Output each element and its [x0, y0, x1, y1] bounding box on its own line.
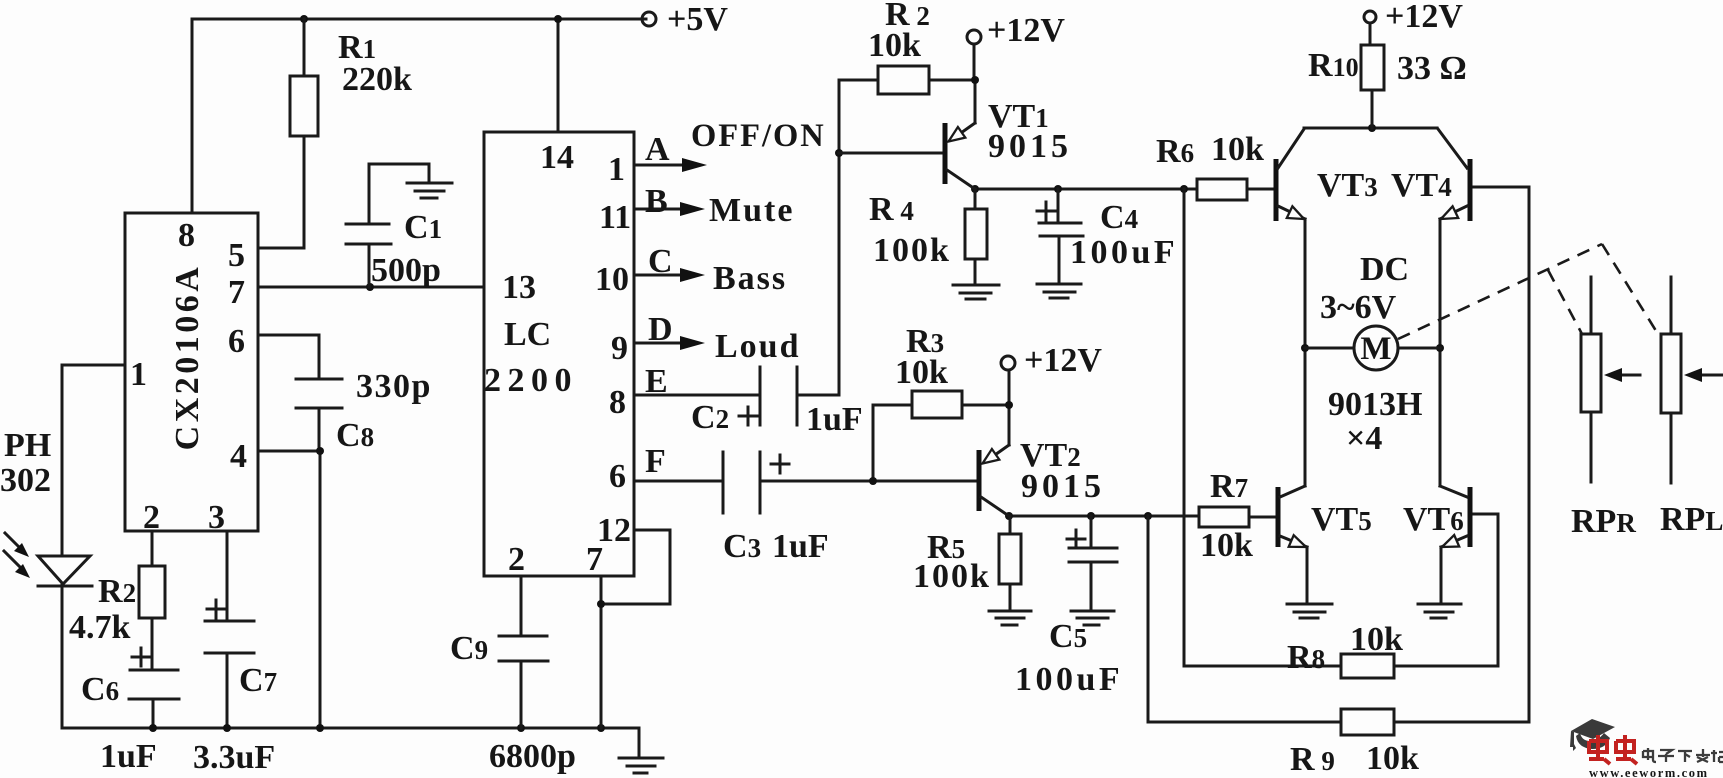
svg-text:1uF: 1uF — [806, 401, 863, 438]
svg-text:A: A — [645, 131, 670, 168]
svg-text:7: 7 — [228, 274, 245, 311]
svg-text:VT5: VT5 — [1311, 501, 1372, 538]
svg-text:F: F — [645, 443, 666, 480]
svg-text:3: 3 — [208, 499, 225, 536]
svg-text:330p: 330p — [356, 368, 432, 405]
svg-text:D: D — [648, 311, 673, 348]
svg-text:14: 14 — [540, 139, 574, 176]
svg-text:E: E — [645, 363, 668, 400]
svg-text:VT6: VT6 — [1403, 501, 1464, 538]
svg-text:+12V: +12V — [1385, 0, 1463, 35]
svg-text:8: 8 — [178, 217, 195, 254]
svg-text:+12V: +12V — [1024, 342, 1102, 379]
svg-text:10: 10 — [595, 261, 629, 298]
svg-text:10k: 10k — [895, 354, 948, 391]
svg-text:C2: C2 — [691, 399, 729, 436]
svg-text:×4: ×4 — [1346, 420, 1382, 457]
svg-text:Mute: Mute — [709, 192, 794, 229]
svg-text:C5: C5 — [1049, 618, 1087, 655]
svg-text:10k: 10k — [1200, 527, 1253, 564]
svg-text:C3: C3 — [723, 528, 761, 565]
svg-text:33 Ω: 33 Ω — [1397, 50, 1467, 87]
svg-text:C: C — [648, 243, 673, 280]
svg-text:2200: 2200 — [484, 362, 578, 399]
svg-text:100uF: 100uF — [1015, 661, 1123, 698]
svg-text:11: 11 — [599, 199, 631, 236]
svg-text:C1: C1 — [404, 209, 442, 246]
svg-text:R10: R10 — [1308, 47, 1359, 84]
svg-text:100uF: 100uF — [1070, 234, 1178, 271]
svg-text:12: 12 — [597, 512, 631, 549]
svg-text:C6: C6 — [81, 671, 119, 708]
svg-text:Bass: Bass — [713, 260, 787, 297]
svg-text:R 4: R 4 — [869, 191, 914, 228]
svg-text:C9: C9 — [450, 630, 488, 667]
svg-text:10k: 10k — [1366, 740, 1419, 777]
svg-text:www.eeworm.com: www.eeworm.com — [1589, 766, 1709, 778]
svg-text:C4: C4 — [1100, 199, 1138, 236]
svg-text:1: 1 — [130, 356, 147, 393]
svg-text:10k: 10k — [1211, 131, 1264, 168]
svg-text:Loud: Loud — [715, 328, 801, 365]
svg-text:+5V: +5V — [667, 1, 728, 38]
svg-text:9015: 9015 — [988, 128, 1072, 165]
svg-text:C8: C8 — [336, 417, 374, 454]
svg-text:OFF/ON: OFF/ON — [691, 118, 826, 154]
svg-text:VT4: VT4 — [1391, 167, 1452, 204]
svg-text:3~6V: 3~6V — [1320, 289, 1397, 326]
svg-text:1uF: 1uF — [772, 528, 829, 565]
svg-text:1: 1 — [608, 151, 625, 188]
svg-text:C7: C7 — [239, 662, 277, 699]
svg-text:9: 9 — [611, 330, 628, 367]
svg-text:13: 13 — [502, 269, 536, 306]
svg-text:8: 8 — [609, 384, 626, 421]
svg-text:10k: 10k — [1350, 621, 1403, 658]
svg-text:M: M — [1360, 331, 1391, 367]
svg-text:2: 2 — [143, 499, 160, 536]
svg-text:302: 302 — [0, 462, 51, 499]
svg-text:DC: DC — [1360, 251, 1409, 288]
svg-text:R 9: R 9 — [1290, 741, 1335, 778]
svg-text:220k: 220k — [342, 61, 412, 98]
svg-text:RPL: RPL — [1660, 501, 1723, 538]
svg-text:1uF: 1uF — [100, 738, 157, 775]
svg-text:2: 2 — [508, 541, 525, 578]
svg-text:R2: R2 — [98, 573, 136, 610]
svg-text:6: 6 — [228, 323, 245, 360]
svg-text:R7: R7 — [1210, 468, 1248, 505]
svg-text:9015: 9015 — [1021, 468, 1105, 505]
svg-text:6800p: 6800p — [489, 738, 576, 775]
svg-text:LC: LC — [504, 316, 551, 353]
svg-text:B: B — [645, 183, 668, 220]
svg-text:5: 5 — [228, 237, 245, 274]
svg-text:PH: PH — [4, 427, 51, 464]
svg-text:6: 6 — [609, 458, 626, 495]
svg-text:4: 4 — [230, 438, 247, 475]
svg-text:4.7k: 4.7k — [69, 609, 131, 646]
svg-text:3.3uF: 3.3uF — [193, 739, 275, 776]
svg-text:10k: 10k — [868, 27, 921, 64]
svg-text:CX20106A: CX20106A — [169, 264, 206, 451]
svg-text:9013H: 9013H — [1328, 386, 1422, 423]
svg-text:500p: 500p — [371, 252, 441, 289]
svg-text:+12V: +12V — [987, 12, 1065, 49]
svg-text:100k: 100k — [873, 232, 951, 269]
svg-text:R8: R8 — [1287, 639, 1325, 676]
svg-text:VT3: VT3 — [1317, 167, 1378, 204]
svg-text:100k: 100k — [913, 558, 991, 595]
svg-text:RPR: RPR — [1571, 503, 1636, 540]
svg-text:R6: R6 — [1156, 133, 1194, 170]
